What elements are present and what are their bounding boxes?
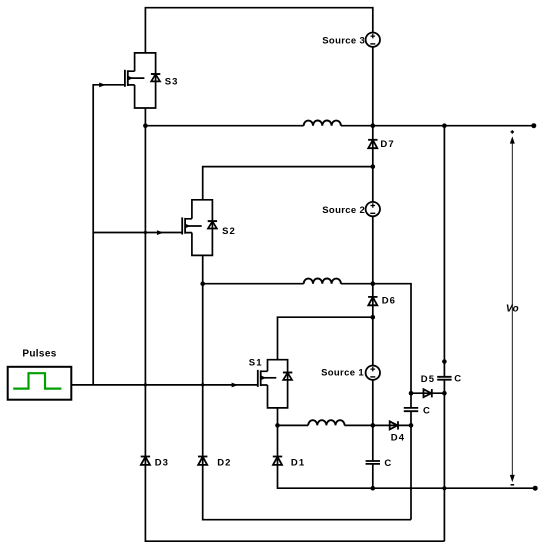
svg-text:D5: D5: [421, 374, 435, 385]
svg-text:C: C: [384, 458, 391, 469]
terminal output minus: [533, 486, 538, 491]
gate arrow S1: [232, 383, 239, 388]
crossing bulge gate bus at D2 column: [201, 383, 204, 386]
wire gate bus: [71, 85, 257, 385]
diode D4: [390, 421, 398, 429]
node rail5 / center column: [371, 423, 376, 428]
inductor L1: [308, 420, 344, 425]
wire S1 source rail (rail 5): [278, 424, 373, 426]
inductor L3: [304, 120, 341, 125]
Vo plus sign: [511, 130, 514, 133]
svg-text:Source 2: Source 2: [322, 205, 365, 216]
wire S2 drain to Source 2 (rail 3): [203, 167, 373, 200]
svg-text:D6: D6: [382, 295, 396, 306]
svg-text:D4: D4: [391, 433, 405, 444]
pulse waveform: [13, 373, 61, 388]
svg-text:Source 3: Source 3: [322, 35, 365, 46]
svg-text:Vo: Vo: [506, 304, 519, 315]
wire S3 source / D3 column: [145, 108, 444, 541]
svg-text:S1: S1: [249, 357, 263, 368]
gate arrow S3: [99, 83, 106, 88]
wire S1 drain rail: [278, 317, 373, 360]
node D5 right: [442, 391, 447, 396]
crossing bulge bottom rail at right cap column: [442, 486, 446, 490]
svg-text:C: C: [454, 374, 461, 385]
crossing bulge S2 gate at D3 column: [144, 231, 147, 234]
svg-text:Source 1: Source 1: [321, 368, 364, 379]
inductor L2: [304, 279, 341, 284]
wire capacitor column mid: [410, 411, 412, 520]
svg-text:Pulses: Pulses: [22, 349, 56, 360]
source Source 1: [366, 366, 380, 380]
capacitor C bottom: [366, 461, 380, 464]
node C bottom / bottom rail: [371, 486, 376, 491]
diode D5: [424, 389, 432, 397]
crossing bulge gate bus at D3 column: [144, 383, 147, 386]
node rail4 / center column: [371, 281, 376, 286]
capacitor C mid: [404, 408, 418, 411]
diode D3: [141, 457, 150, 465]
wire center column top: [372, 47, 374, 488]
wire S1 source / D1 column and bottom rail: [278, 408, 536, 488]
diode D6: [368, 297, 377, 305]
node S3 source / rail2: [143, 123, 148, 128]
wire top rail: [145, 8, 372, 53]
source Source 3: [366, 33, 380, 47]
diode D2: [198, 457, 207, 465]
svg-text:C: C: [423, 406, 430, 417]
svg-text:D3: D3: [155, 458, 169, 469]
node S1 drain rail / center column: [371, 315, 376, 320]
node S1 source / rail5: [275, 423, 280, 428]
svg-text:S2: S2: [222, 226, 236, 237]
wire S2 source rail (rail 4): [203, 284, 411, 408]
wire capacitor column right: [443, 126, 445, 542]
Vo measurement line: [511, 140, 513, 480]
Vo arrow up: [510, 136, 515, 143]
wire S2 source / D2 column: [203, 255, 411, 519]
node D4 right: [409, 423, 414, 428]
wire D4 branch: [373, 424, 411, 426]
node cap right column: [442, 359, 447, 364]
crossing bulge bottom rail at mid cap column: [410, 487, 413, 490]
svg-text:D1: D1: [291, 458, 305, 469]
MOSFET S2: [182, 200, 217, 256]
source Source 2: [366, 202, 380, 216]
node right cap column / rail2: [442, 123, 447, 128]
pulse generator box: [8, 367, 72, 400]
capacitor C right: [437, 377, 451, 380]
node D5 left: [409, 391, 414, 396]
diode D1: [273, 457, 282, 465]
wire output positive rail (rail 2): [145, 125, 533, 127]
node rail3 / center column: [371, 164, 376, 169]
Vo arrow down: [510, 475, 515, 482]
node S2 source / rail4: [200, 281, 205, 286]
gate arrow S2: [157, 230, 164, 235]
terminal output plus: [531, 123, 536, 128]
node source3 / rail2: [371, 123, 376, 128]
MOSFET S1: [258, 360, 293, 408]
wire D5 branch: [411, 392, 444, 394]
svg-text:D7: D7: [380, 139, 394, 150]
svg-text:D2: D2: [217, 458, 231, 469]
MOSFET S3: [125, 53, 160, 108]
Vo minus sign: [511, 484, 515, 486]
diode D7: [368, 140, 377, 148]
svg-text:S3: S3: [165, 77, 179, 88]
